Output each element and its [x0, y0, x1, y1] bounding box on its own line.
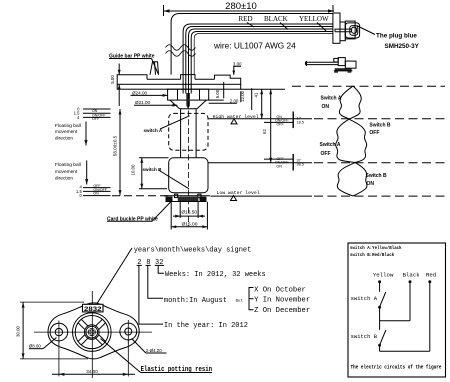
svg-text:X On October: X On October: [254, 286, 306, 294]
svg-text:In the year: In 2012: In the year: In 2012: [164, 322, 248, 330]
svg-text:Floating ball: Floating ball: [55, 162, 81, 168]
svg-text:switch B:Red/Black: switch B:Red/Black: [350, 253, 395, 258]
svg-text:Ø8.60: Ø8.60: [29, 344, 42, 349]
svg-text:10.00: 10.00: [131, 164, 136, 176]
svg-text:years\month\weeks\day signet: years\month\weeks\day signet: [134, 247, 252, 255]
svg-text:OFF: OFF: [369, 130, 379, 136]
svg-text:12.00: 12.00: [240, 90, 245, 102]
svg-text:Weeks: In 2012, 32 weeks: Weeks: In 2012, 32 weeks: [165, 271, 266, 279]
svg-text:Switch B: Switch B: [366, 173, 388, 179]
svg-text:58.00±0.5: 58.00±0.5: [113, 135, 118, 156]
svg-text:wire: UL1007 AWG 24: wire: UL1007 AWG 24: [213, 41, 296, 51]
svg-text:High water level: High water level: [213, 114, 259, 120]
svg-text:YELLOW: YELLOW: [299, 15, 329, 23]
svg-text:Elastic potting resin: Elastic potting resin: [141, 366, 213, 374]
svg-text:Card buckle PP white: Card buckle PP white: [107, 216, 158, 222]
svg-text:Switch A: Switch A: [321, 96, 342, 102]
svg-text:Ø15.00: Ø15.00: [182, 221, 198, 227]
svg-text:Ø24.00: Ø24.00: [132, 90, 148, 95]
svg-text:switch A: switch A: [351, 295, 378, 302]
svg-text:But: But: [236, 300, 243, 304]
svg-text:OFF: OFF: [92, 117, 100, 121]
svg-text:30.00: 30.00: [16, 325, 21, 337]
svg-text:280±10: 280±10: [225, 1, 257, 12]
svg-text:RED: RED: [239, 15, 253, 23]
svg-text:2.00: 2.00: [230, 98, 239, 103]
svg-text:switch B: switch B: [351, 333, 378, 340]
svg-text:direction: direction: [55, 176, 73, 182]
svg-text:62: 62: [262, 129, 267, 134]
svg-text:Y In November: Y In November: [254, 297, 310, 305]
svg-text:5.00: 5.00: [215, 89, 220, 98]
svg-text:movement: movement: [55, 169, 78, 175]
svg-text:34.00: 34.00: [86, 369, 98, 374]
svg-text:switch A:Yellow/Black: switch A:Yellow/Black: [350, 246, 402, 251]
svg-text:Yellow: Yellow: [373, 272, 394, 279]
svg-text:ON: ON: [277, 164, 283, 168]
svg-text:BLACK: BLACK: [264, 15, 288, 23]
svg-text:The plug blue: The plug blue: [376, 33, 417, 40]
svg-text:5.00: 5.00: [110, 75, 115, 84]
svg-text:switch A: switch A: [144, 128, 163, 133]
svg-text:41: 41: [253, 92, 258, 97]
svg-text:The electric circuits of the f: The electric circuits of the figure: [351, 365, 442, 371]
svg-text:ON: ON: [322, 104, 330, 110]
svg-text:Guide bar PP white: Guide bar PP white: [109, 54, 155, 60]
svg-text:3.00: 3.00: [233, 61, 242, 66]
svg-text:2-Ø4.20: 2-Ø4.20: [146, 348, 162, 353]
svg-text:Switch A: Switch A: [320, 142, 341, 148]
svg-text:Ø21.00: Ø21.00: [135, 100, 151, 105]
svg-text:Ø13.50: Ø13.50: [181, 210, 197, 216]
svg-text:month:In August: month:In August: [164, 297, 227, 305]
svg-text:OFF: OFF: [277, 123, 285, 127]
svg-text:ON: ON: [367, 181, 375, 187]
svg-text:8: 8: [146, 259, 150, 267]
svg-text:Switch B: Switch B: [369, 123, 391, 129]
svg-text:Low water level: Low water level: [217, 190, 260, 196]
svg-text:32: 32: [155, 259, 163, 267]
svg-text:2: 2: [137, 259, 141, 267]
svg-text:Z On December: Z On December: [254, 307, 310, 315]
svg-text:direction: direction: [55, 136, 73, 142]
svg-text:Red: Red: [426, 272, 436, 279]
svg-text:SMH250-3Y: SMH250-3Y: [385, 43, 420, 50]
svg-text:Floating ball: Floating ball: [55, 123, 81, 129]
svg-text:ON: ON: [93, 192, 99, 196]
svg-text:Black: Black: [403, 272, 421, 279]
svg-text:movement: movement: [55, 129, 78, 135]
svg-text:switch B: switch B: [143, 167, 163, 172]
svg-text:2832: 2832: [84, 306, 102, 313]
svg-text:OFF: OFF: [321, 151, 331, 157]
svg-text:38.5: 38.5: [297, 162, 304, 166]
svg-text:18.5: 18.5: [297, 121, 304, 125]
